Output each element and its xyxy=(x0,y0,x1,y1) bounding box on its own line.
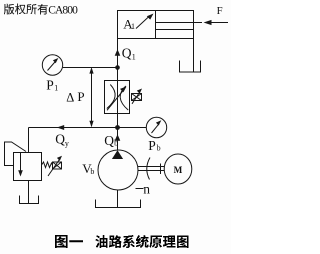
svg-text:CA800: CA800 xyxy=(48,4,78,16)
flow control valve adjust arrow xyxy=(107,90,124,111)
cylinder A1 rod xyxy=(156,23,203,30)
wire branch line xyxy=(29,127,147,129)
svg-text:1: 1 xyxy=(54,84,58,93)
gauge Pb needle xyxy=(152,124,160,133)
relief valve pilot line xyxy=(5,142,27,166)
label A1 leader arrow xyxy=(136,16,150,29)
svg-text:P: P xyxy=(77,89,84,104)
svg-text:b: b xyxy=(90,167,94,176)
wire pump suction xyxy=(117,190,119,208)
flow control valve compensator box xyxy=(132,94,142,101)
relief valve flow path xyxy=(20,153,22,171)
flow arrow Qb xyxy=(115,134,121,140)
svg-text:Q: Q xyxy=(55,131,65,146)
shaft pump-motor xyxy=(138,167,164,171)
svg-text:F: F xyxy=(217,5,223,17)
pump Vb xyxy=(98,150,138,190)
relief valve spring xyxy=(42,162,53,168)
cylinder A1 piston xyxy=(155,11,157,39)
flow control valve compensator arrow xyxy=(132,92,140,104)
flow arrow Qy xyxy=(57,125,64,130)
svg-text:Δ: Δ xyxy=(66,91,74,105)
motor M xyxy=(164,154,192,184)
svg-text:b: b xyxy=(157,143,161,152)
flow control valve throttle arcs xyxy=(107,85,115,109)
flow arrow Q1 xyxy=(115,49,121,55)
gauge Pb xyxy=(146,117,166,137)
tank rod-side xyxy=(180,61,201,73)
copyright watermark 版权所有 xyxy=(4,4,48,15)
cylinder A1 body xyxy=(118,11,194,39)
svg-text:y: y xyxy=(65,139,69,148)
node junction top xyxy=(115,65,120,70)
tank relief xyxy=(20,196,39,204)
relief valve adjust arrow xyxy=(48,159,60,176)
svg-text:1: 1 xyxy=(131,22,135,31)
relief valve body xyxy=(14,153,42,181)
wire relief drain xyxy=(28,181,30,204)
tank pump xyxy=(96,200,141,208)
svg-text:Q: Q xyxy=(104,133,114,148)
wire relief supply xyxy=(28,128,30,153)
dP dimension line xyxy=(91,69,93,125)
gauge P1 needle xyxy=(48,61,56,71)
wire main line cylinder-to-pump xyxy=(117,39,119,151)
caption 图一 xyxy=(55,235,83,248)
svg-text:M: M xyxy=(174,165,183,175)
shaft coupling tick xyxy=(160,164,162,175)
caption 油路系统原理图 xyxy=(96,235,189,248)
pump Vb triangle xyxy=(112,150,123,159)
relief valve adjust box xyxy=(53,162,62,169)
force F arrow xyxy=(211,22,229,24)
svg-text:n: n xyxy=(143,181,150,196)
wire rod-side drain xyxy=(193,39,195,73)
label n leader xyxy=(136,188,144,190)
svg-text:Q: Q xyxy=(122,46,132,61)
node junction mid xyxy=(115,125,120,130)
wire gauge P1 to main line xyxy=(63,67,118,69)
gauge P1 xyxy=(42,55,62,75)
svg-text:P: P xyxy=(46,77,54,92)
svg-text:1: 1 xyxy=(132,52,136,61)
shaft coupling arc xyxy=(147,158,150,180)
flow control valve body xyxy=(105,81,130,114)
svg-text:P: P xyxy=(148,138,156,153)
